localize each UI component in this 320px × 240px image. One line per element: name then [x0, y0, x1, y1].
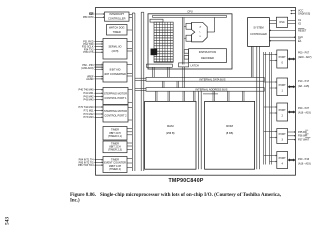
- svg-text:STEPPING MOTOR: STEPPING MOTOR: [104, 92, 127, 96]
- svg-text:(2CH): (2CH): [112, 49, 119, 53]
- svg-text:(AN0-AN3): (AN0-AN3): [81, 67, 93, 70]
- svg-text:3: 3: [281, 138, 283, 142]
- svg-text:U: U: [199, 36, 201, 38]
- svg-text:P20 - P27: P20 - P27: [298, 107, 310, 110]
- svg-text:A: A: [200, 25, 202, 28]
- svg-text:1: 1: [281, 88, 283, 92]
- svg-text:0: 0: [281, 61, 283, 65]
- svg-text:PORT: PORT: [279, 156, 286, 160]
- svg-text:X2: X2: [298, 22, 302, 25]
- svg-text:LATCH: LATCH: [191, 64, 199, 68]
- svg-text:543: 543: [5, 217, 11, 225]
- svg-text:P73 M13: P73 M13: [83, 116, 94, 119]
- svg-text:SYSTEM: SYSTEM: [253, 27, 263, 30]
- svg-text:PORT: PORT: [279, 83, 286, 87]
- svg-text:P36 WR: P36 WR: [298, 135, 308, 138]
- svg-text:CONTROL PORT 2: CONTROL PORT 2: [104, 114, 127, 118]
- svg-text:INTERNAL DATA BUS: INTERNAL DATA BUS: [200, 78, 226, 82]
- svg-text:CONTROL PORT 1: CONTROL PORT 1: [104, 96, 127, 100]
- svg-text:(8 KB): (8 KB): [226, 131, 233, 135]
- svg-text:ROM: ROM: [226, 124, 233, 128]
- svg-text:RESET: RESET: [298, 29, 307, 32]
- svg-text:PORT: PORT: [279, 132, 286, 136]
- svg-text:P10 - P17: P10 - P17: [298, 80, 310, 83]
- svg-text:4: 4: [281, 162, 283, 166]
- svg-text:(A8 - A15): (A8 - A15): [298, 85, 309, 88]
- svg-text:(TIMER 0,1): (TIMER 0,1): [108, 134, 122, 138]
- svg-text:P35 RD: P35 RD: [298, 131, 307, 134]
- svg-text:STEPPING MOTOR: STEPPING MOTOR: [104, 109, 127, 113]
- svg-text:P40 - P43: P40 - P43: [298, 158, 310, 161]
- svg-text:P86 TO3 TO4: P86 TO3 TO4: [78, 164, 94, 167]
- svg-text:WATCH DOG: WATCH DOG: [109, 25, 125, 29]
- svg-text:P35 CTS: P35 CTS: [83, 51, 93, 54]
- svg-text:(TIMER 2,3): (TIMER 2,3): [108, 148, 122, 152]
- svg-text:EA: EA: [298, 40, 302, 43]
- svg-text:P80 INT0: P80 INT0: [83, 16, 94, 19]
- svg-text:P37 WAIT: P37 WAIT: [298, 138, 310, 141]
- svg-text:L: L: [200, 31, 202, 33]
- svg-text:TIMER: TIMER: [113, 30, 121, 34]
- svg-text:(A16 - A19): (A16 - A19): [298, 163, 311, 166]
- svg-text:CONTROLLER: CONTROLLER: [108, 17, 126, 21]
- svg-text:GND(VSS): GND(VSS): [298, 12, 310, 15]
- svg-text:CLK: CLK: [298, 36, 303, 39]
- svg-text:TMP90C840P: TMP90C840P: [168, 178, 203, 184]
- svg-text:(A16 - A19): (A16 - A19): [298, 111, 311, 114]
- svg-text:INTERNAL ADDRESS BUS: INTERNAL ADDRESS BUS: [196, 87, 228, 91]
- svg-text:(AD0 - AD7): (AD0 - AD7): [298, 56, 312, 59]
- svg-text:8 BIT A/D: 8 BIT A/D: [110, 68, 121, 72]
- svg-text:SERIAL I/O: SERIAL I/O: [108, 44, 121, 48]
- svg-text:Figure 8.86. Single-chip mic: Figure 8.86. Single-chip microprocessor …: [70, 193, 282, 198]
- svg-text:RAM: RAM: [167, 124, 174, 128]
- svg-text:Inc.): Inc.): [70, 199, 80, 204]
- svg-text:P00 - P07: P00 - P07: [298, 52, 310, 55]
- svg-text:PORT: PORT: [279, 108, 286, 112]
- svg-text:CONTROLLER: CONTROLLER: [250, 33, 267, 36]
- svg-text:INTERRUPT: INTERRUPT: [109, 12, 124, 16]
- svg-text:2: 2: [281, 114, 283, 118]
- svg-text:CPU: CPU: [187, 9, 193, 13]
- svg-text:AGND: AGND: [86, 78, 93, 81]
- svg-text:OSC: OSC: [279, 21, 285, 24]
- svg-text:(256 B): (256 B): [166, 131, 175, 135]
- svg-text:4CH CONVERTER: 4CH CONVERTER: [104, 72, 126, 76]
- svg-text:(TIMER 4): (TIMER 4): [109, 167, 121, 171]
- svg-text:PORT: PORT: [279, 55, 286, 59]
- svg-text:INSTRUCTION: INSTRUCTION: [199, 50, 217, 54]
- svg-text:DECODER: DECODER: [201, 56, 214, 60]
- svg-text:P43 M43: P43 M43: [83, 99, 94, 102]
